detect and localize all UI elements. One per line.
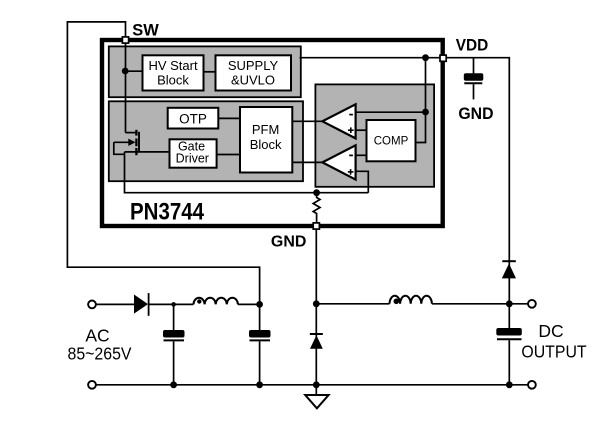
- node switch rail junction: [313, 300, 320, 307]
- op-amp comparator A1 (top): [322, 104, 355, 138]
- diode D2 freewheel: [310, 333, 323, 335]
- diode D1 input rectifier: [134, 295, 148, 314]
- node output bottom junction: [506, 381, 513, 388]
- node C1 top junction: [171, 302, 176, 307]
- svg-text:OTP: OTP: [179, 111, 207, 126]
- chip U1 PN3744 outline: [102, 40, 443, 226]
- wire OTP to PFM: [218, 117, 240, 119]
- wire Gate Driver to PFM: [217, 154, 241, 156]
- op-amp comparator A2 (bottom): [322, 145, 355, 179]
- svg-text:Block: Block: [250, 137, 282, 152]
- node output junction: [506, 300, 513, 307]
- wire diode to C1 node: [149, 303, 194, 305]
- svg-text:Block: Block: [157, 72, 189, 87]
- terminal DC bottom: [528, 381, 536, 389]
- gray block 2 (control): [109, 101, 303, 181]
- terminal AC bottom: [88, 381, 96, 389]
- wire junction to HV Start Block: [125, 70, 142, 72]
- gate bar: [138, 132, 140, 152]
- svg-text:AC: AC: [85, 325, 109, 345]
- wire L1 to SW node: [238, 303, 260, 305]
- capacitor C2: [259, 304, 261, 330]
- node SW internal junction: [122, 68, 129, 75]
- node bottom rail junction (mid): [313, 381, 320, 388]
- pin GND: [313, 223, 319, 229]
- node VDD junction: [422, 54, 429, 61]
- wire bottom comparator output to PFM: [292, 161, 324, 163]
- node comparator reference junction: [422, 109, 429, 116]
- wire source down to GND rail: [125, 152, 369, 193]
- svg-text:DC: DC: [538, 321, 563, 341]
- node SW rail junction: [256, 301, 263, 308]
- capacitor C4 output: [508, 304, 510, 328]
- diode D3 to VDD: [502, 260, 516, 262]
- terminal DC top: [528, 300, 536, 308]
- node C1 bottom junction: [170, 381, 177, 388]
- svg-text:GND: GND: [271, 234, 307, 251]
- svg-text:PN3744: PN3744: [130, 199, 204, 226]
- pin SW: [122, 37, 128, 43]
- wire top comparator output to PFM: [292, 120, 324, 122]
- svg-text:SW: SW: [132, 21, 159, 40]
- svg-text:OUTPUT: OUTPUT: [521, 342, 587, 362]
- wire bottom comparator plus input to sense node: [356, 171, 369, 192]
- wire bottom rail: [96, 384, 528, 386]
- block OTP: [168, 108, 219, 129]
- wire top comparator plus input to COMP: [356, 129, 367, 131]
- wire VDD down to comparator area: [425, 58, 427, 112]
- svg-text:SUPPLY: SUPPLY: [228, 58, 279, 73]
- body arrow: [114, 141, 130, 143]
- svg-text:Driver: Driver: [176, 152, 209, 166]
- inductor L1: [194, 298, 238, 305]
- block HV Start: [143, 55, 204, 90]
- wire SW net top-left loop: [67, 22, 259, 305]
- gray block 3 (comparators): [315, 84, 434, 186]
- wire junction to COMP box right: [416, 112, 426, 143]
- svg-text:PFM: PFM: [252, 122, 279, 137]
- capacitor C1: [173, 304, 175, 330]
- wire VDD net: supply block to VDD pin and beyond: [300, 58, 510, 304]
- inductor L2: [390, 296, 432, 304]
- wire AC top lead: [96, 303, 134, 305]
- capacitor C3 VDD bypass: [473, 58, 475, 74]
- drain stub: [126, 132, 137, 134]
- wire SW pin to internal node: [125, 40, 127, 133]
- svg-text:GND: GND: [458, 104, 493, 123]
- wire GND pin down to output rail: [315, 230, 317, 385]
- gray block 1 (startup/supply): [109, 46, 301, 97]
- terminal AC top: [88, 301, 96, 309]
- block SUPPLY &UVLO: [216, 55, 292, 90]
- wire gate drive line: [125, 151, 171, 153]
- node C2 bottom junction: [256, 381, 263, 388]
- wire top comparator minus input: [356, 111, 426, 113]
- source/body loop and gate drive line: [114, 142, 125, 154]
- wire output rail: [316, 303, 389, 305]
- block Gate Driver: [170, 139, 217, 167]
- svg-text:&UVLO: &UVLO: [231, 72, 275, 87]
- channel contact bars: [135, 130, 137, 136]
- svg-text:85~265V: 85~265V: [68, 344, 132, 364]
- wire bottom comparator minus input to COMP: [356, 154, 367, 156]
- svg-text:VDD: VDD: [456, 36, 489, 55]
- pin VDD: [440, 55, 446, 61]
- node L2 phase dot: [394, 299, 400, 305]
- resistor R1 sense: [313, 193, 320, 226]
- wire HV Start to SUPPLY: [204, 71, 216, 73]
- node sense junction: [313, 189, 320, 196]
- ground: [315, 385, 317, 395]
- block PFM: [240, 107, 292, 173]
- svg-text:COMP: COMP: [374, 136, 409, 148]
- node L1 phase dot: [197, 299, 201, 303]
- block COMP: [367, 120, 416, 161]
- wire L2 to output node: [432, 303, 528, 305]
- svg-text:HV Start: HV Start: [148, 58, 198, 73]
